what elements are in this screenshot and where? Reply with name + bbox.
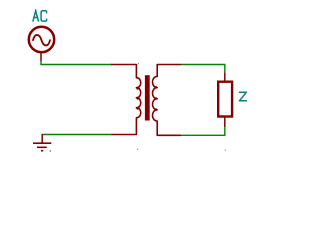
load Z label bbox=[239, 92, 246, 101]
wire from secondary top to load Z bbox=[181, 65, 225, 73]
AC source bottom pin bbox=[40, 53, 42, 61]
wire from AC source to transformer primary top bbox=[41, 61, 112, 65]
load Z body rectangle bbox=[218, 82, 232, 117]
secondary winding loop knots bbox=[155, 86, 158, 111]
load Z top pin bbox=[224, 72, 226, 80]
wire from load Z to secondary bottom bbox=[181, 127, 225, 135]
gray anchor dot near transformer top-left bbox=[138, 63, 139, 64]
AC source sine wave bbox=[33, 35, 50, 46]
faint gray dot below load Z bbox=[225, 149, 226, 150]
ground symbol stem bbox=[41, 134, 43, 143]
wire from transformer primary bottom to ground bbox=[42, 134, 111, 136]
transformer T1 primary winding (left) bbox=[111, 65, 141, 135]
AC source body circle bbox=[29, 27, 54, 52]
AC source label AC bbox=[33, 10, 47, 21]
ground bar 2 bbox=[37, 146, 47, 148]
load Z bottom pin bbox=[224, 118, 226, 127]
ground bar 3 bbox=[41, 150, 43, 152]
faint gray dot below transformer bbox=[137, 149, 138, 150]
primary winding loop knots bbox=[136, 87, 138, 109]
transformer T1 core bbox=[145, 75, 150, 120]
gray anchor dot near ground bbox=[50, 150, 52, 152]
transformer T1 secondary winding (right) bbox=[152, 65, 181, 136]
ground bar 1 bbox=[33, 142, 51, 144]
